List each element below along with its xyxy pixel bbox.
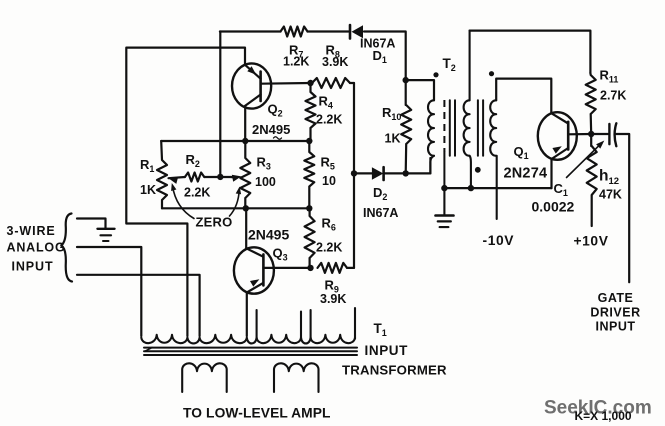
svg-text:h12: h12 [599, 168, 619, 188]
T2 shield (dashed) to ground [443, 100, 445, 152]
svg-text:2.2K: 2.2K [316, 113, 342, 127]
svg-text:47K: 47K [599, 188, 622, 202]
svg-text:T2: T2 [443, 56, 456, 73]
wire right rail R8-D2-R9 [353, 83, 355, 268]
transistor Q1 [538, 112, 577, 160]
svg-text:-10V: -10V [483, 233, 515, 248]
wire T2 primary bottom lead [430, 156, 434, 174]
svg-text:GATE: GATE [598, 291, 634, 305]
svg-text:C1: C1 [554, 181, 568, 198]
svg-text:1K: 1K [385, 132, 401, 146]
node sec1 bottom/ground [468, 185, 474, 191]
wire top rail of zero network [161, 140, 309, 142]
svg-text:100: 100 [255, 175, 276, 189]
node R5 bottom [306, 205, 312, 211]
T2 polarity dot primary [433, 72, 438, 77]
wire bottom rail of zero network [162, 207, 309, 209]
svg-text:INPUT: INPUT [365, 343, 409, 358]
resistor R11 [586, 73, 596, 134]
svg-text:Q3: Q3 [273, 246, 288, 263]
transformer T2 core lines right [477, 100, 479, 156]
svg-text:T1: T1 [374, 321, 387, 338]
node Q1 base junction [588, 131, 594, 137]
svg-text:R5: R5 [321, 155, 335, 172]
svg-text:R4: R4 [319, 94, 333, 111]
wire top-left rail [220, 32, 406, 80]
small mark under 2N495 [274, 137, 282, 140]
wire T2 sec1 top lead [469, 31, 471, 101]
wire Q2 emitter loop [126, 48, 245, 336]
node R10 top [403, 77, 409, 83]
transformer T1 secondary winding B [274, 363, 319, 392]
wire R7-left to zero network [219, 32, 221, 177]
node R6/R9/Q3 base [307, 265, 313, 271]
transformer T1 winding stub leads [256, 310, 258, 339]
svg-text:R10: R10 [382, 105, 401, 122]
resistor R4 [306, 83, 316, 141]
R3 wiper arrow [231, 176, 233, 179]
svg-text:2N495: 2N495 [252, 122, 290, 137]
transformer T2 primary winding [428, 100, 434, 156]
svg-text:3.9K: 3.9K [322, 55, 348, 69]
resistor R10 [401, 79, 411, 173]
svg-text:1.2K: 1.2K [283, 55, 309, 69]
svg-text:2N495: 2N495 [248, 227, 289, 243]
node shield/ground [441, 185, 447, 191]
T2 polarity dot sec2 top [489, 71, 494, 76]
R1 wiper arrow [169, 177, 179, 184]
svg-text:K=X 1,000: K=X 1,000 [575, 409, 632, 423]
resistor R6 [305, 208, 315, 268]
svg-text:INPUT: INPUT [12, 260, 54, 274]
transformer T1 secondary winding A [182, 363, 227, 392]
svg-text:DRIVER: DRIVER [590, 306, 640, 320]
capacitor C1 [591, 133, 608, 135]
svg-text:R2: R2 [186, 152, 200, 169]
wire D2 to R10 bottom [384, 172, 406, 174]
svg-text:TRANSFORMER: TRANSFORMER [342, 363, 447, 378]
svg-text:D1: D1 [373, 48, 387, 65]
svg-text:ZERO: ZERO [196, 215, 233, 230]
svg-text:10: 10 [322, 174, 336, 188]
resistor R8 [312, 78, 350, 88]
input brace [61, 214, 72, 282]
svg-text:ANALOG: ANALOG [7, 241, 66, 255]
transformer T1 core [144, 347, 357, 349]
transformer T2 core lines left [449, 100, 451, 156]
resistor R3 (pot) [240, 141, 250, 208]
svg-text:R1: R1 [140, 157, 154, 174]
wire input bottom [77, 275, 200, 336]
svg-text:D2: D2 [373, 185, 387, 202]
ground symbol (T2) [443, 188, 445, 215]
wire T2 sec1 bottom lead [470, 156, 471, 188]
svg-text:INPUT: INPUT [596, 320, 636, 334]
svg-text:TO LOW-LEVEL AMPL: TO LOW-LEVEL AMPL [183, 406, 331, 421]
C1 pointer arrow [567, 144, 601, 178]
svg-text:3-WIRE: 3-WIRE [7, 224, 56, 238]
svg-text:2.7K: 2.7K [600, 89, 626, 103]
transistor Q2 [232, 63, 271, 108]
node R4/R8 junction [307, 80, 313, 86]
transformer T2 secondary-1 winding [464, 100, 470, 156]
node R5 top [306, 138, 312, 144]
wire input top (ground lead) [77, 219, 106, 229]
resistor R5 [304, 141, 314, 208]
svg-text:IN67A: IN67A [363, 206, 398, 220]
svg-text:Q1: Q1 [514, 144, 529, 161]
svg-text:Q2: Q2 [268, 102, 283, 119]
svg-text:R11: R11 [600, 68, 619, 85]
svg-text:0.0022: 0.0022 [532, 199, 575, 215]
svg-text:+10V: +10V [574, 234, 609, 249]
T2 polarity dot sec1 bottom [475, 167, 481, 173]
ground symbol (input) [98, 228, 115, 230]
svg-text:R3: R3 [257, 155, 271, 172]
node R3 bottom [243, 205, 249, 211]
wire R10 top to T2 primary [406, 80, 434, 100]
ZERO arrow to R3 [230, 190, 240, 217]
resistor R9 [318, 263, 348, 273]
node wiper-R7 junction [217, 174, 223, 180]
resistor R2 [185, 173, 204, 182]
wire top-right rail [470, 31, 591, 73]
wire T2 ground bus [444, 187, 551, 189]
wire input middle [77, 247, 141, 336]
svg-text:R6: R6 [322, 216, 336, 233]
wire T2 sec2 top lead [496, 79, 551, 113]
svg-text:1K: 1K [140, 183, 156, 197]
transformer T2 secondary-2 winding [490, 100, 496, 156]
node right-rail/D2 [351, 170, 357, 176]
wire R10 bottom to T2 [406, 158, 431, 173]
wire T2 sec2 bottom lead (-10V) [496, 156, 498, 219]
node R10 bottom [403, 170, 409, 176]
node Q2 collector / R3 top [242, 138, 248, 144]
wire D2 row [354, 172, 372, 174]
resistor R1 (pot) [157, 141, 167, 208]
ZERO arrow to R1 [173, 186, 195, 219]
transistor Q3 [234, 247, 274, 293]
svg-text:2N274: 2N274 [504, 166, 548, 182]
diode D1 [349, 25, 352, 39]
svg-text:2.2K: 2.2K [316, 241, 342, 255]
svg-text:2.2K: 2.2K [184, 186, 210, 200]
svg-text:3.9K: 3.9K [320, 292, 346, 306]
resistor R12 [587, 134, 597, 226]
transformer T1 primary winding scallops [141, 335, 355, 344]
diode D2 [372, 167, 383, 180]
resistor R7 [281, 27, 308, 37]
